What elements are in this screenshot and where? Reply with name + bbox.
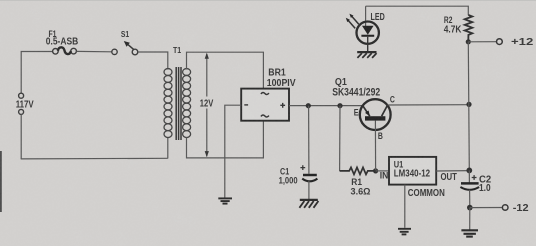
- transformer core: [176, 67, 181, 140]
- switch S1: [112, 49, 117, 54]
- transformer secondary winding: [183, 69, 191, 138]
- transformer T1: [164, 69, 172, 138]
- terminal circle 117V bottom: [19, 109, 24, 114]
- Q1 collector diagonal: [382, 105, 388, 116]
- wire: R1 branch down: [339, 106, 341, 171]
- wire: BR1 minus to ground: [225, 105, 241, 198]
- wire: primary bottom lead: [167, 138, 169, 159]
- BR1 ac tilde top: [261, 92, 269, 94]
- node -12 junction: [467, 205, 473, 211]
- capacitor C2: [461, 182, 479, 185]
- wire: to U1 IN: [376, 170, 389, 172]
- transistor Q1: [360, 99, 391, 130]
- node collector/right rail: [466, 102, 471, 107]
- wire: fuse to switch: [77, 50, 112, 52]
- ground (earth) below C1: [300, 199, 318, 201]
- Q1 base bar: [365, 116, 385, 120]
- node C1 junction: [306, 103, 311, 108]
- wire: rail into C2: [468, 170, 470, 182]
- wire: right vertical rail: [468, 42, 469, 171]
- terminal circle +12: [497, 39, 503, 45]
- wire: U1 COMMON lead: [404, 185, 406, 228]
- Q1 base lead: [374, 121, 376, 170]
- wire: secondary top lead to BR1: [187, 52, 264, 88]
- bridge rectifier BR1 box: [241, 89, 289, 121]
- C2 plus sign: [472, 175, 477, 180]
- wire to -12 terminal: [470, 207, 503, 209]
- node R1 junction: [337, 103, 342, 108]
- wire: collector to right vertical: [387, 104, 469, 106]
- resistor R2: [465, 15, 473, 42]
- wire: switch to transformer primary top: [138, 52, 168, 70]
- wire: top rail LED to R2: [366, 6, 469, 15]
- wire to +12 terminal: [468, 41, 496, 43]
- wire: bottom primary return: [21, 157, 168, 160]
- wire: U1 OUT to right rail: [436, 170, 469, 172]
- terminal circle 117V top: [19, 93, 24, 98]
- regulator U1 box: [389, 157, 436, 185]
- top edge scan line: [0, 0, 536, 1]
- node base/IN junction: [373, 168, 378, 173]
- C1 plus sign: [300, 165, 305, 170]
- node OUT junction: [466, 168, 472, 174]
- 12V measurement arrow: [206, 54, 208, 156]
- wire: lower-left vertical: [20, 114, 22, 159]
- wire: down to ground: [469, 208, 471, 230]
- Q1 emitter diagonal + arrow: [363, 106, 370, 117]
- LED emission arrows: [351, 16, 359, 25]
- terminal circle -12: [502, 205, 508, 211]
- ground (3-bar) below BR1: [218, 198, 232, 203]
- ground (earth) below LED: [357, 51, 376, 53]
- resistor R1: [340, 167, 376, 174]
- node +12 junction: [466, 39, 471, 44]
- wire: BR1 plus rail to Q1 emitter: [289, 105, 363, 107]
- wire: C1 branch: [308, 106, 310, 174]
- capacitor C1: [303, 174, 317, 177]
- LED: [365, 6, 367, 26]
- left edge scan bar: [0, 151, 2, 212]
- BR1 minus sign: [244, 104, 248, 106]
- BR1 plus sign: [280, 103, 285, 108]
- wire: secondary bottom lead: [187, 121, 264, 158]
- wire: left vertical + top wire to fuse: [21, 52, 52, 94]
- ground (3-bar) below C2: [461, 230, 478, 236]
- ground (3-bar) below U1: [398, 229, 411, 235]
- BR1 ac tilde bottom: [261, 115, 269, 117]
- fuse F1: [53, 49, 59, 55]
